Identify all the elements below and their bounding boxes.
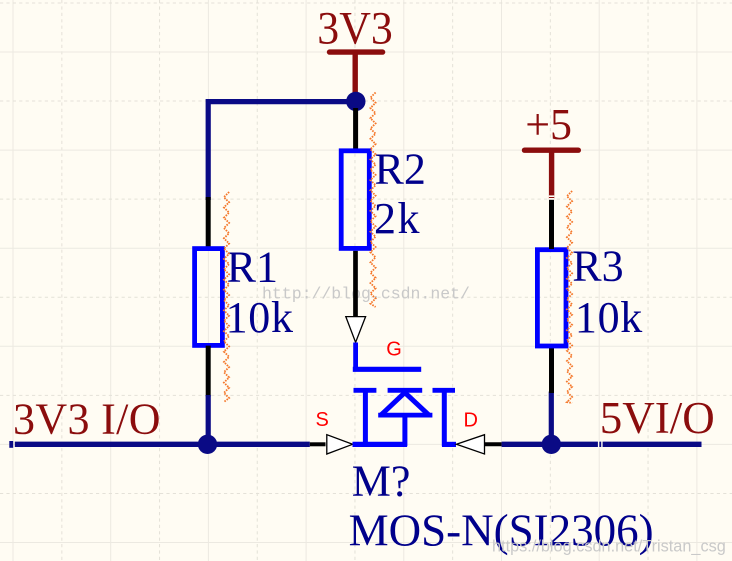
power port +5 stem <box>549 150 554 200</box>
transistor M? substrate vertical <box>402 414 407 446</box>
wire from top junction to R1 column <box>208 102 352 200</box>
pin R1.2 <box>206 346 211 397</box>
transistor M? substrate arrow <box>381 393 429 416</box>
pin M1.G arrow <box>346 317 366 343</box>
transistor M? drain stub <box>442 442 456 447</box>
power port +5 bar <box>525 147 579 152</box>
svg-text:R3: R3 <box>572 242 623 291</box>
pin R3.2 <box>549 348 554 393</box>
power port 3V3 bar <box>330 49 383 54</box>
transistor M? drain contact vertical <box>442 388 447 446</box>
transistor M? substrate base bar <box>378 413 432 418</box>
pin R1.1 <box>206 197 211 248</box>
svg-text:5VI/O: 5VI/O <box>600 393 715 443</box>
resistor R1 body <box>195 249 223 346</box>
pin R3.1 <box>549 200 554 249</box>
transistor M? channel segment 2 <box>388 388 423 393</box>
svg-text:2k: 2k <box>374 194 421 243</box>
zigzag marker R1 <box>224 192 229 402</box>
svg-text:R1: R1 <box>227 243 278 292</box>
svg-text:10k: 10k <box>226 293 294 342</box>
svg-text:G: G <box>386 338 402 360</box>
svg-text:https://blog.csdn.net/Tristan_: https://blog.csdn.net/Tristan_csg <box>492 538 726 556</box>
junction right node <box>542 435 561 454</box>
wire R1 to bottom junction <box>206 395 211 444</box>
svg-text:+5: +5 <box>525 100 572 149</box>
svg-text:3V3: 3V3 <box>317 3 393 55</box>
zigzag marker R3 <box>567 191 572 403</box>
pin M1.S lead <box>310 442 326 446</box>
resistor R2 body <box>341 151 369 249</box>
pin R2.1 <box>353 108 358 150</box>
transistor M? source bottom bar <box>353 442 408 447</box>
svg-text:R2: R2 <box>375 144 426 193</box>
pin M1.S arrow <box>327 435 353 454</box>
transistor M? channel segment 3 <box>433 388 456 393</box>
junction left node <box>198 435 217 454</box>
pin M1.D lead <box>485 442 502 446</box>
transistor M? channel segment 1 <box>354 388 377 393</box>
transistor M? gate bar <box>353 367 421 372</box>
power port 3V3 stem <box>353 52 358 98</box>
junction top node <box>346 92 365 111</box>
resistor R3 body <box>537 250 566 346</box>
wire main right <box>502 442 702 447</box>
pin M1.D arrow <box>456 435 484 454</box>
wire segment marks <box>598 441 599 448</box>
transistor M? source contact vertical <box>363 388 368 446</box>
wire end cross left <box>9 441 13 448</box>
svg-text:3V3 I/O: 3V3 I/O <box>13 394 161 443</box>
svg-text:D: D <box>464 409 478 431</box>
svg-text:10k: 10k <box>575 293 643 342</box>
wire right junction to R3 <box>549 392 554 445</box>
transistor M? gate vertical <box>353 343 358 370</box>
svg-text:M?: M? <box>352 457 411 506</box>
zigzag marker R2 <box>370 93 375 308</box>
svg-text:S: S <box>316 409 329 431</box>
wire main left <box>15 442 310 447</box>
pin M1.G lead <box>353 251 358 316</box>
